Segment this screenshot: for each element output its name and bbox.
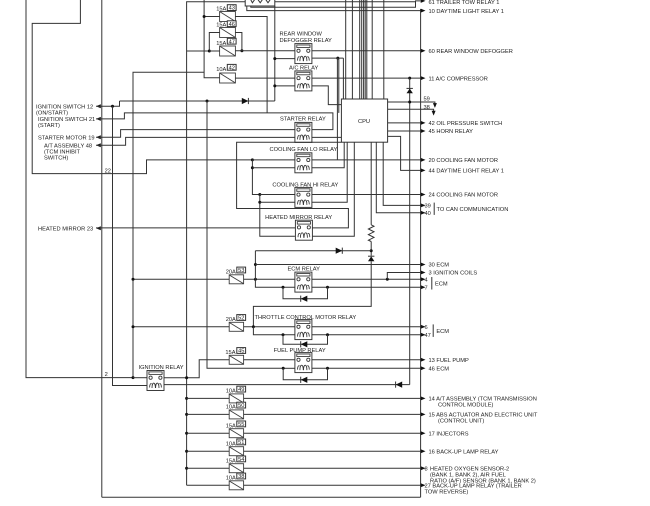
- wire hi coil feed: [260, 201, 295, 203]
- junction dot fuel coil right: [326, 367, 329, 370]
- junction dot 30 ECM branch: [254, 263, 257, 266]
- fuse F38: [229, 481, 243, 490]
- svg-text:47: 47: [229, 39, 235, 45]
- bus A (ignition bus x=186.6): [187, 1, 421, 485]
- svg-text:TOW REVERSE): TOW REVERSE): [425, 490, 469, 496]
- CPU top harness wires: [345, 0, 347, 99]
- wire mirror coil return to CPU: [312, 142, 354, 236]
- wire lo coil return to CPU: [312, 142, 344, 168]
- wire hi chain drop to mirror coil: [260, 195, 295, 237]
- svg-text:16 BACK-UP LAMP RELAY: 16 BACK-UP LAMP RELAY: [429, 449, 499, 455]
- wire fuse38 out to label 27: [244, 484, 421, 486]
- svg-text:52: 52: [238, 316, 244, 322]
- junction dot ignition output on bus A: [185, 376, 188, 379]
- svg-text:4: 4: [425, 278, 428, 284]
- diode D6 across throttle coil: [283, 335, 328, 345]
- svg-text:HEATED MIRROR 23: HEATED MIRROR 23: [38, 227, 93, 233]
- CPU box U1: [341, 99, 387, 142]
- svg-text:20A: 20A: [226, 270, 236, 276]
- junction dot bus C bottom: [132, 376, 135, 379]
- junction dot ECM feed node: [254, 278, 257, 281]
- fuse F45: [229, 355, 243, 364]
- svg-text:15A: 15A: [216, 23, 226, 29]
- wire coil return drop 2 into CPU top: [342, 58, 344, 99]
- fuse F51: [229, 447, 243, 456]
- coil zigzag of top relay: [250, 0, 271, 3]
- relay trailer tow stub (cut at top): [245, 0, 275, 6]
- svg-text:13 FUEL PUMP: 13 FUEL PUMP: [429, 358, 469, 364]
- svg-text:20A: 20A: [226, 317, 236, 323]
- wire hi coil return to CPU: [312, 142, 347, 202]
- diode D7 across fuel coil: [283, 368, 327, 380]
- fuse F54: [229, 464, 243, 473]
- svg-text:CONTROL MODULE): CONTROL MODULE): [438, 403, 494, 409]
- wire ignition switch 21 to starter relay contact: [96, 113, 333, 130]
- wire coil return drop 1: [336, 58, 338, 160]
- svg-text:46 ECM: 46 ECM: [429, 367, 450, 373]
- svg-text:50: 50: [238, 403, 244, 409]
- wire fuse47 feed: [209, 50, 219, 52]
- junction dot bus A f55: [185, 432, 188, 435]
- svg-text:ECM RELAY: ECM RELAY: [288, 267, 321, 273]
- svg-text:(START): (START): [38, 123, 60, 129]
- wire throttle coil bus: [253, 327, 295, 335]
- wire hi contact feed: [260, 194, 295, 196]
- wire lo relay chain drop: [252, 160, 259, 195]
- wire fuse43 output to starter feed: [235, 17, 267, 113]
- wire fuse52 feed: [133, 326, 229, 328]
- svg-text:53: 53: [238, 268, 244, 274]
- diode D1 (ignition feed): [120, 100, 275, 102]
- svg-text:38: 38: [424, 105, 430, 111]
- svg-text:15A: 15A: [225, 350, 235, 356]
- diode D3 ECM feed: [255, 250, 371, 252]
- wire fuse54 feed: [187, 467, 230, 469]
- wire ignition relay contact output to bus A: [164, 377, 187, 379]
- wire A/C coil right to CPU left pin: [312, 86, 342, 105]
- svg-text:22: 22: [105, 168, 111, 174]
- svg-text:6: 6: [425, 325, 428, 331]
- svg-text:15A: 15A: [226, 458, 236, 464]
- junction dot bus A f54: [185, 467, 188, 470]
- svg-text:ECM: ECM: [436, 329, 449, 335]
- wire D4 down to throttle section: [253, 261, 371, 327]
- wire defogger contact output to label 60: [312, 50, 421, 52]
- wire mirror contact feed loop from CPU: [237, 142, 349, 228]
- fuse F43: [220, 12, 236, 22]
- junction dot throttle feed node: [252, 325, 255, 328]
- junction dot ign12 / ignition coil branch: [111, 105, 114, 108]
- wire starter motor 19: [96, 130, 295, 138]
- svg-text:38: 38: [238, 474, 244, 480]
- svg-text:30 ECM: 30 ECM: [429, 263, 450, 269]
- svg-text:59: 59: [424, 96, 430, 102]
- diode D2 (to battery node, up): [409, 78, 411, 385]
- wire ignition switch 12: [96, 101, 120, 106]
- wire ignition contact feed: [133, 377, 147, 379]
- junction dot lo contact feed: [251, 158, 254, 161]
- wire 3 ignition coils: [387, 273, 420, 280]
- svg-text:2: 2: [105, 372, 108, 378]
- svg-text:10 DAYTIME LIGHT RELAY 1: 10 DAYTIME LIGHT RELAY 1: [429, 9, 504, 15]
- svg-text:44 DAYTIME LIGHT RELAY 1: 44 DAYTIME LIGHT RELAY 1: [429, 169, 504, 175]
- label to CAN communication: [433, 203, 435, 215]
- diode D8 ignition coil to battery: [164, 384, 410, 386]
- svg-text:45: 45: [238, 349, 244, 355]
- fuse F42: [220, 73, 236, 83]
- wire top relay pin B to trailer tow node: [251, 1, 416, 7]
- svg-text:CPU: CPU: [358, 119, 370, 125]
- junction dot fuse43 feed: [203, 15, 206, 18]
- svg-text:SWITCH): SWITCH): [44, 155, 68, 161]
- fuse F49: [229, 394, 243, 403]
- svg-text:STARTER MOTOR 19: STARTER MOTOR 19: [38, 135, 95, 141]
- junction dot throttle coil right: [326, 333, 329, 336]
- svg-text:15A: 15A: [216, 41, 226, 47]
- svg-text:11 A/C COMPRESSOR: 11 A/C COMPRESSOR: [429, 76, 488, 82]
- junction dot throttle coil left: [282, 333, 285, 336]
- svg-text:20 COOLING FAN MOTOR: 20 COOLING FAN MOTOR: [429, 158, 498, 164]
- svg-text:ECM: ECM: [435, 282, 448, 288]
- fuse F55: [229, 429, 243, 438]
- junction dot resistor/diode node: [370, 249, 373, 252]
- wire 2 battery feed (left outer vertical): [26, 0, 133, 378]
- svg-text:61 TRAILER TOW RELAY 1: 61 TRAILER TOW RELAY 1: [429, 0, 500, 6]
- svg-text:7: 7: [425, 286, 428, 292]
- diode D5 across ECM coil: [283, 287, 328, 298]
- svg-text:42 OIL PRESSURE SWITCH: 42 OIL PRESSURE SWITCH: [429, 121, 503, 127]
- svg-text:10A: 10A: [226, 441, 236, 447]
- fuse F46: [220, 28, 236, 38]
- svg-text:STARTER RELAY: STARTER RELAY: [280, 117, 326, 123]
- wire fuse50 feed: [187, 413, 230, 415]
- resistor R1: [370, 142, 372, 225]
- wire fuse50 out to label 15: [244, 413, 421, 415]
- svg-text:10A: 10A: [216, 67, 226, 73]
- junction dot A/C output / diode branch: [408, 77, 411, 80]
- diode D4 (up): [368, 256, 374, 261]
- wire coil return drop 1b: [338, 58, 340, 113]
- svg-text:24 COOLING FAN MOTOR: 24 COOLING FAN MOTOR: [429, 193, 498, 199]
- wire fuse42 output to A/C relay: [235, 77, 295, 79]
- wire defogger coil left feed: [275, 58, 295, 60]
- outer box right edge: [420, 9, 422, 497]
- wire starter coil right to CPU left: [312, 136, 342, 138]
- svg-text:3 IGNITION COILS: 3 IGNITION COILS: [429, 271, 478, 277]
- wire lo contact feed: [252, 159, 295, 161]
- wire fuse46-47 left bracket: [187, 33, 220, 52]
- wire fuse53 out to ECM relay: [244, 278, 295, 280]
- svg-text:39: 39: [425, 204, 431, 210]
- junction dot coil bus A/C: [273, 84, 276, 87]
- junction dot fuse47 output: [240, 49, 243, 52]
- svg-text:43: 43: [229, 6, 235, 12]
- wire ignition relay coil feed vertical x=112.5: [113, 106, 150, 385]
- wire fuse45 out to fuel pump relay: [244, 359, 295, 361]
- junction dot bus A f51: [185, 450, 188, 453]
- wire lo contact output to label 20: [312, 159, 421, 161]
- wire fuse46 output bracket: [235, 33, 242, 51]
- wire CPU pin 59: [388, 102, 435, 105]
- wire lo coil feed: [252, 167, 295, 169]
- wire fuse49 feed: [187, 397, 230, 399]
- svg-text:17 INJECTORS: 17 INJECTORS: [429, 431, 469, 437]
- svg-text:49: 49: [238, 387, 244, 393]
- svg-text:55: 55: [238, 422, 244, 428]
- fuse F50: [229, 410, 243, 419]
- wire fuse49 out to label 14: [244, 397, 421, 399]
- wire fuse55 out to label 17: [244, 432, 421, 434]
- junction dot hi coil feed: [258, 201, 261, 204]
- junction dot bus A f49: [185, 397, 188, 400]
- junction dot coil bus defogger: [273, 57, 276, 60]
- label ECM bracket 2: [432, 324, 434, 337]
- wire CPU pin 38: [388, 109, 434, 112]
- wire A/C contact output to label 11: [312, 77, 421, 79]
- junction dot bus C fuse52: [132, 325, 135, 328]
- arrow to daytime light relay 1: [421, 9, 426, 13]
- svg-text:51: 51: [238, 440, 244, 446]
- junction dot coil-supply branch: [206, 100, 209, 103]
- outer box bottom edge: [102, 496, 421, 498]
- wire fuse43 feed: [204, 16, 220, 18]
- svg-text:REAR WINDOW: REAR WINDOW: [280, 32, 323, 38]
- svg-text:15A: 15A: [216, 7, 226, 13]
- wire 22 feed (top-left L): [32, 0, 252, 174]
- wire ECM coil bus: [255, 279, 295, 287]
- label ECM bracket: [431, 277, 433, 290]
- svg-text:46: 46: [229, 22, 235, 28]
- wire ECM contact output: [312, 278, 421, 280]
- svg-text:15A: 15A: [226, 423, 236, 429]
- wire fuse54 out to label 8: [244, 467, 421, 469]
- junction dot bracket: [208, 50, 211, 53]
- wire 30 ECM: [255, 264, 420, 266]
- outer box left edge: [101, 0, 103, 497]
- wire A/T assembly 48 to starter coil: [96, 137, 295, 145]
- fuse F53: [229, 275, 243, 284]
- wire CPU pin 44 daytime light: [388, 136, 421, 170]
- arrow to trailer tow relay: [421, 0, 426, 3]
- svg-text:(ON/START): (ON/START): [36, 110, 68, 116]
- svg-text:TO CAN COMMUNICATION: TO CAN COMMUNICATION: [437, 207, 509, 213]
- svg-text:10A: 10A: [226, 405, 236, 411]
- wire fuse45 feed from ignition relay output: [187, 360, 230, 378]
- junction dot pin59/diode bus: [408, 101, 411, 104]
- svg-text:42: 42: [229, 65, 235, 71]
- wire fuel contact output to label 13: [312, 359, 421, 361]
- wire defogger coil right to CPU node: [312, 57, 344, 59]
- junction dot lo coil feed: [251, 166, 254, 169]
- svg-text:10A: 10A: [226, 476, 236, 482]
- junction dot bus A f50: [185, 413, 188, 416]
- fuse F52: [229, 322, 243, 331]
- svg-text:(CONTROL UNIT): (CONTROL UNIT): [438, 419, 484, 425]
- junction dot bus C fuse53: [132, 278, 135, 281]
- svg-text:60 REAR WINDOW DEFOGGER: 60 REAR WINDOW DEFOGGER: [429, 49, 513, 55]
- wire bus C top (x=133): [133, 72, 204, 377]
- wire heated mirror 23 to mirror contact: [96, 227, 295, 229]
- junction dot fuel coil left: [282, 367, 285, 370]
- wire CPU pin 45 horn relay: [388, 130, 421, 132]
- svg-text:8: 8: [425, 466, 428, 472]
- wire defogger contact feed: [235, 50, 295, 52]
- svg-text:A/C RELAY: A/C RELAY: [289, 65, 318, 71]
- wire throttle contact output: [312, 326, 421, 328]
- wire hi contact output to label 24: [312, 194, 421, 196]
- wire CPU pin 42 oil pressure: [388, 122, 421, 124]
- junction dot defogger coil return: [336, 57, 339, 60]
- wire fuse52 out to throttle relay: [244, 326, 295, 328]
- svg-text:DEFOGGER RELAY: DEFOGGER RELAY: [280, 38, 333, 44]
- wire ECM feed node up to diode wire: [254, 251, 256, 280]
- wire CPU pin 39: [383, 142, 421, 205]
- svg-text:10A: 10A: [226, 389, 236, 395]
- wire fuse51 out to label 16: [244, 450, 421, 452]
- svg-text:40: 40: [425, 211, 431, 217]
- wire CPU pin 40: [376, 142, 420, 213]
- wire fuse38 feed (bus A bottom corner): [187, 484, 230, 486]
- svg-text:COOLING FAN LO RELAY: COOLING FAN LO RELAY: [270, 147, 338, 153]
- svg-text:47: 47: [425, 333, 431, 339]
- junction dot hi contact feed: [258, 193, 261, 196]
- wire fuse53 feed: [133, 278, 229, 280]
- junction dot ECM coil right: [326, 286, 329, 289]
- bus D coil supply x=207: [207, 101, 283, 368]
- wire top relay coil right pin down (coil supply bus x=274.8): [274, 6, 276, 101]
- wire fuse51 feed: [187, 450, 230, 452]
- bus B (battery bus x=204.1): [204, 0, 220, 78]
- junction dot ignition coils branch: [386, 278, 389, 281]
- wire A/C coil left feed: [275, 85, 295, 87]
- junction dot ECM coil left: [282, 286, 285, 289]
- fuse F47: [220, 46, 236, 56]
- wire fuse55 feed: [187, 432, 230, 434]
- svg-text:54: 54: [238, 457, 244, 463]
- svg-text:45 HORN RELAY: 45 HORN RELAY: [429, 129, 474, 135]
- wire top relay pin A to daytime light: [247, 6, 421, 11]
- wire fuel coil bus feed (from bus D): [283, 367, 295, 369]
